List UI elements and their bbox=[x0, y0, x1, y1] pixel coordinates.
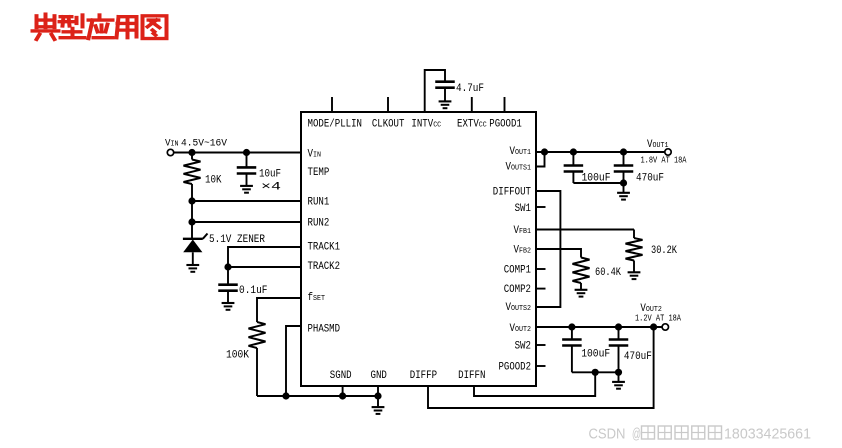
svg-text:CC: CC bbox=[433, 122, 441, 130]
ground under C3 bbox=[439, 101, 452, 108]
wire SW1 stub bbox=[536, 206, 546, 208]
pin label PGOOD2 bbox=[499, 361, 532, 373]
junction PHASMD-rail bbox=[282, 392, 289, 399]
wire SGND pin down bbox=[342, 386, 344, 396]
wire VIN rail bbox=[174, 152, 301, 154]
svg-text:100uF: 100uF bbox=[581, 349, 610, 361]
pin label RUN2 bbox=[308, 218, 330, 230]
wire C3 to ground bbox=[444, 88, 446, 102]
svg-text:GND: GND bbox=[371, 370, 388, 382]
pin label DIFFP bbox=[410, 370, 438, 382]
wire C6 top lead bbox=[571, 327, 573, 340]
svg-text:SW2: SW2 bbox=[515, 340, 531, 352]
svg-text:SGND: SGND bbox=[330, 370, 352, 382]
svg-text:CLKOUT: CLKOUT bbox=[372, 119, 405, 131]
wire VOUT1 rail bbox=[536, 151, 665, 153]
svg-text:INTV: INTV bbox=[411, 119, 433, 131]
svg-text:60.4K: 60.4K bbox=[595, 267, 621, 279]
ground under C1 bbox=[240, 186, 253, 193]
svg-text:DIFFOUT: DIFFOUT bbox=[493, 187, 532, 199]
node VIN input terminal bbox=[167, 149, 173, 155]
svg-text:SW1: SW1 bbox=[515, 203, 532, 215]
svg-text:OUTS1: OUTS1 bbox=[511, 164, 531, 172]
pin label DIFFOUT bbox=[493, 187, 532, 199]
wire R2 bottom to gnd rail bbox=[256, 348, 258, 396]
svg-text:4.5V~16V: 4.5V~16V bbox=[181, 138, 228, 150]
junction DIFFP tap bbox=[650, 323, 657, 330]
svg-text:OUTS2: OUTS2 bbox=[511, 305, 531, 313]
svg-text:18033425661: 18033425661 bbox=[724, 426, 811, 443]
resistor R3 30.2K bbox=[626, 238, 643, 261]
svg-text:TEMP: TEMP bbox=[308, 167, 330, 179]
wire VFB2 to R4 bbox=[536, 249, 581, 258]
junction VIN-R1 bbox=[188, 149, 195, 156]
svg-text:SET: SET bbox=[313, 295, 325, 303]
label 5.1V ZENER bbox=[209, 234, 265, 246]
label VOUT2 bbox=[640, 303, 662, 315]
wire C1 bottom lead bbox=[246, 174, 248, 186]
ground under C2 bbox=[222, 303, 235, 310]
svg-text:@: @ bbox=[632, 426, 641, 443]
svg-text:10K: 10K bbox=[205, 175, 222, 187]
pin label TRACK2 bbox=[308, 261, 341, 273]
resistor R4 60.4K bbox=[573, 258, 590, 284]
svg-text:MODE/PLLIN: MODE/PLLIN bbox=[308, 119, 363, 131]
node VOUT2 output terminal bbox=[662, 324, 668, 330]
label 1.8V AT 18A bbox=[641, 156, 687, 166]
svg-text:CSDN: CSDN bbox=[589, 426, 626, 443]
svg-text:DIFFN: DIFFN bbox=[458, 370, 485, 382]
value label 100uF top bbox=[582, 172, 611, 184]
svg-text:4.7uF: 4.7uF bbox=[456, 83, 484, 95]
capacitor C1 10uF bbox=[237, 167, 257, 173]
wire R3 bottom lead bbox=[633, 261, 635, 273]
pin label SW1 bbox=[515, 203, 532, 215]
svg-text:FB2: FB2 bbox=[519, 248, 531, 256]
svg-text:TRACK1: TRACK1 bbox=[308, 241, 341, 253]
wire C7 top lead bbox=[618, 327, 620, 340]
svg-text:×4: ×4 bbox=[261, 182, 282, 194]
watermark CSDN bbox=[589, 426, 812, 443]
pin label DIFFN bbox=[458, 370, 485, 382]
wire VOUTS1 bbox=[536, 152, 545, 167]
svg-text:PHASMD: PHASMD bbox=[308, 324, 341, 336]
junction VOUTS1 tap bbox=[541, 148, 548, 155]
wire TRACK1 bbox=[228, 247, 301, 267]
ground under GND bbox=[372, 407, 385, 414]
junction C4 top bbox=[570, 148, 577, 155]
capacitor C6 100uF bbox=[562, 340, 582, 346]
pin label RUN1 bbox=[308, 197, 330, 209]
junction C7 bottom bbox=[615, 369, 622, 376]
svg-text:DIFFP: DIFFP bbox=[410, 370, 438, 382]
ground under R4 bbox=[575, 290, 588, 297]
pin label CLKOUT bbox=[372, 119, 405, 131]
pin label GND bbox=[371, 370, 388, 382]
pin label INTVCC bbox=[411, 119, 441, 131]
svg-text:100K: 100K bbox=[226, 350, 249, 362]
wire RUN2 bbox=[192, 221, 301, 223]
value label 470uF top bbox=[636, 172, 664, 184]
pin label VFB1 bbox=[514, 225, 532, 237]
wire CLKOUT top stub bbox=[387, 97, 389, 112]
wire GND pin down bbox=[377, 386, 379, 407]
wire DIFFN sense bbox=[474, 372, 595, 396]
wire TRACK2 bbox=[228, 266, 301, 268]
pin label EXTVCC bbox=[457, 119, 487, 131]
pin label VIN bbox=[308, 148, 322, 160]
junction C5 bottom bbox=[620, 179, 627, 186]
svg-text:PGOOD1: PGOOD1 bbox=[489, 119, 522, 131]
svg-text:1.2V AT 18A: 1.2V AT 18A bbox=[635, 314, 681, 324]
wire VOUT2 rail bbox=[536, 326, 662, 328]
junction VIN-C1 bbox=[243, 149, 250, 156]
value label 100K bbox=[226, 350, 249, 362]
svg-text:IN: IN bbox=[171, 141, 179, 149]
svg-text:470uF: 470uF bbox=[636, 172, 664, 184]
resistor R2 100K bbox=[249, 322, 266, 348]
wire R1 top lead bbox=[191, 153, 193, 160]
wire COMP1 stub bbox=[536, 268, 546, 270]
label VIN 4.5V~16V bbox=[165, 138, 228, 150]
wire C7 bottom to gnd bbox=[618, 372, 620, 382]
wire COMP2 stub bbox=[536, 288, 546, 290]
wire C4 top lead bbox=[572, 152, 574, 166]
svg-text:EXTV: EXTV bbox=[457, 119, 479, 131]
wire C6 bottom lead bbox=[571, 346, 573, 373]
svg-text:PGOOD2: PGOOD2 bbox=[499, 361, 532, 373]
wire EXTVCC top stub bbox=[471, 97, 473, 112]
wire MODE/PLLIN top stub bbox=[331, 97, 333, 112]
junction SGND-rail bbox=[339, 392, 346, 399]
wire FSET to R2 bbox=[257, 298, 301, 322]
junction C6 top bbox=[568, 323, 575, 330]
junction C7 top bbox=[615, 323, 622, 330]
pin label COMP1 bbox=[504, 264, 532, 276]
wire PGOOD2 stub bbox=[536, 365, 546, 367]
wire INTVCC to C3 bbox=[425, 70, 445, 112]
junction GND-rail bbox=[374, 392, 381, 399]
wire C4 bottom lead bbox=[572, 172, 574, 184]
pin label VOUTS2 bbox=[506, 302, 532, 314]
wire DIFFOUT to VOUTS2 loop bbox=[536, 191, 560, 307]
pin label COMP2 bbox=[504, 284, 531, 296]
value label 30.2K bbox=[651, 245, 677, 257]
pin label SGND bbox=[330, 370, 352, 382]
pin label VFB2 bbox=[514, 245, 532, 257]
svg-text:CC: CC bbox=[479, 122, 487, 130]
wire C5 top lead bbox=[623, 152, 625, 166]
wire C2 top lead bbox=[227, 267, 229, 285]
svg-text:0.1uF: 0.1uF bbox=[239, 285, 268, 297]
junction RUN2 bbox=[188, 218, 195, 225]
svg-text:FB1: FB1 bbox=[519, 228, 531, 236]
junction RUN1 bbox=[188, 197, 195, 204]
capacitor C4 100uF bbox=[564, 166, 584, 172]
wire SW2 stub bbox=[536, 344, 546, 346]
svg-text:RUN1: RUN1 bbox=[308, 197, 330, 209]
label VOUT1 bbox=[647, 139, 669, 151]
wire C2 bottom lead bbox=[227, 291, 229, 303]
title text 典型应用图 bbox=[33, 14, 167, 39]
svg-text:IN: IN bbox=[313, 151, 321, 159]
value label 10K bbox=[205, 175, 222, 187]
wire VFB1 to R3 bbox=[536, 229, 634, 231]
pin label SW2 bbox=[515, 340, 531, 352]
svg-text:10uF: 10uF bbox=[259, 169, 281, 181]
wire RUN1 bbox=[192, 200, 301, 202]
svg-text:COMP1: COMP1 bbox=[504, 264, 532, 276]
pin label TRACK1 bbox=[308, 241, 341, 253]
value label 4.7uF bbox=[456, 83, 484, 95]
wire PHASMD down bbox=[286, 326, 301, 396]
junction TRACK2-C2 bbox=[224, 263, 231, 270]
node VOUT1 output terminal bbox=[665, 149, 671, 155]
resistor R1 10K bbox=[184, 160, 201, 185]
ground under R3 bbox=[628, 272, 641, 279]
junction C5 top bbox=[620, 148, 627, 155]
value label 470uF bottom bbox=[624, 351, 652, 363]
ground under C7 bbox=[612, 382, 625, 389]
wire C5 bottom to gnd bbox=[623, 183, 625, 193]
wire C5 bottom lead bbox=[623, 172, 625, 184]
svg-text:COMP2: COMP2 bbox=[504, 284, 531, 296]
pin label TEMP bbox=[308, 167, 330, 179]
svg-text:5.1V ZENER: 5.1V ZENER bbox=[209, 234, 265, 246]
diode D1 5.1V zener bbox=[183, 234, 208, 266]
capacitor C2 0.1uF bbox=[218, 285, 238, 291]
capacitor C5 470uF bbox=[614, 166, 634, 172]
value label 0.1uF bbox=[239, 285, 268, 297]
ground under D1 bbox=[186, 265, 199, 272]
label 1.2V AT 18A bbox=[635, 314, 681, 324]
svg-text:TRACK2: TRACK2 bbox=[308, 261, 341, 273]
svg-text:1.8V AT 18A: 1.8V AT 18A bbox=[641, 156, 687, 166]
capacitor C3 4.7uF bbox=[435, 82, 455, 88]
wire C4-C5 bottom join bbox=[573, 182, 623, 184]
pin label VOUT2 bbox=[510, 323, 532, 335]
value label 60.4K bbox=[595, 267, 621, 279]
wire bottom ground rail bbox=[257, 395, 378, 397]
capacitor C7 470uF bbox=[609, 340, 629, 346]
pin label VOUT1 bbox=[510, 146, 532, 158]
ground under C5 bbox=[617, 193, 630, 200]
svg-text:30.2K: 30.2K bbox=[651, 245, 677, 257]
IC U1 DC/DC controller box bbox=[301, 112, 536, 386]
wire R4 bottom lead bbox=[580, 283, 582, 290]
wire R1 bottom to zener bbox=[191, 184, 193, 239]
wire C6-C7 bottom join bbox=[572, 371, 619, 373]
value label 100uF bottom bbox=[581, 349, 610, 361]
svg-text:OUT1: OUT1 bbox=[515, 149, 531, 157]
junction DIFFN tap bbox=[592, 369, 599, 376]
wire PGOOD1 top stub bbox=[504, 97, 506, 112]
svg-text:RUN2: RUN2 bbox=[308, 218, 330, 230]
wire DIFFP sense bbox=[428, 327, 654, 408]
pin label FSET bbox=[308, 292, 326, 304]
svg-text:470uF: 470uF bbox=[624, 351, 652, 363]
wire C7 bottom lead bbox=[618, 346, 620, 373]
wire C1 top lead bbox=[246, 153, 248, 168]
pin label VOUTS1 bbox=[506, 161, 532, 173]
svg-text:OUT1: OUT1 bbox=[653, 142, 669, 150]
pin label MODE/PLLIN bbox=[308, 119, 363, 131]
pin label PHASMD bbox=[308, 324, 341, 336]
wire R3 top lead bbox=[633, 230, 635, 239]
pin label PGOOD1 bbox=[489, 119, 522, 131]
svg-text:OUT2: OUT2 bbox=[515, 326, 531, 334]
value label 10uF x4 bbox=[259, 169, 282, 194]
